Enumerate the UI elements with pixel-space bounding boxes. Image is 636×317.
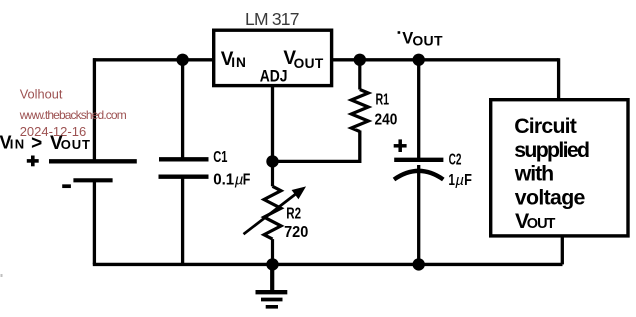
wire C2 branch down xyxy=(417,60,420,162)
load box text xyxy=(514,114,590,233)
speck artifact left margin xyxy=(1,274,3,277)
svg-text:voltage: voltage xyxy=(515,185,586,209)
svg-text:IN: IN xyxy=(231,55,246,70)
svg-text:µ: µ xyxy=(455,172,464,189)
wire battery - down to bottom rail xyxy=(93,180,96,264)
wire left vertical drop (top rail to battery +) xyxy=(93,58,96,161)
svg-text:www.thebackshed.com: www.thebackshed.com xyxy=(19,108,127,122)
svg-text:IN: IN xyxy=(10,136,25,151)
value 1uF xyxy=(448,172,472,189)
battery minus sign xyxy=(62,184,71,188)
svg-text:supplied: supplied xyxy=(514,138,590,162)
node junction C2 / bottom rail xyxy=(413,258,425,270)
wire ADJ junction to R1 bottom xyxy=(273,131,360,162)
wire LM317 output to right xyxy=(332,58,559,61)
label VIN > VOUT condition xyxy=(0,132,90,154)
capacitor C2 curved bottom plate xyxy=(394,171,443,180)
svg-text:>: > xyxy=(31,133,42,154)
node junction top rail / C1 xyxy=(176,54,188,66)
ground xyxy=(256,264,288,306)
svg-text:F: F xyxy=(464,172,472,189)
node junction output rail / R1 xyxy=(354,54,366,66)
arrow of R2 wiper xyxy=(244,187,305,234)
load box (circuit supplied with voltage VOUT) xyxy=(491,100,628,236)
svg-text:720: 720 xyxy=(284,224,308,241)
svg-text:1: 1 xyxy=(448,172,455,189)
pin label VIN xyxy=(221,49,246,70)
op-amp U1 LM317 regulator box xyxy=(214,30,332,85)
resistor R2 (variable) xyxy=(264,161,281,264)
svg-text:0.1: 0.1 xyxy=(213,172,234,189)
node junction R2 / bottom rail / ground xyxy=(266,258,278,270)
wire bottom ground rail xyxy=(93,263,563,266)
svg-text:OUT: OUT xyxy=(61,137,90,152)
svg-text:Circuit: Circuit xyxy=(514,114,577,138)
value 0.1uF xyxy=(213,172,250,189)
capacitor C1 top plate xyxy=(159,157,209,161)
svg-text:OUT: OUT xyxy=(412,32,443,48)
node junction output rail / C2 / VOUT xyxy=(413,54,425,66)
svg-text:240: 240 xyxy=(375,112,398,129)
battery plus sign xyxy=(27,156,39,167)
resistor R1 xyxy=(351,60,368,132)
wire C1 branch from top rail down xyxy=(181,60,184,160)
wire VOUT rail corner down to load box xyxy=(557,58,560,99)
svg-text:C1: C1 xyxy=(213,149,227,166)
pin label VOUT xyxy=(283,48,323,71)
capacitor C2 plus sign xyxy=(394,139,407,152)
svg-text:with: with xyxy=(514,161,554,185)
svg-text:OUT: OUT xyxy=(527,216,556,232)
wire C2 to bottom rail xyxy=(417,165,420,264)
svg-text:C2: C2 xyxy=(449,152,462,169)
wire load box bottom to rail xyxy=(561,236,564,264)
battery B1 negative plate (short) xyxy=(73,178,112,182)
capacitor C1 bottom plate xyxy=(159,175,209,179)
svg-text:Volhout: Volhout xyxy=(20,87,63,102)
svg-text:ADJ: ADJ xyxy=(260,68,288,86)
svg-text:OUT: OUT xyxy=(294,56,324,71)
capacitor C2 top plate xyxy=(394,158,443,162)
svg-text:R2: R2 xyxy=(286,205,301,222)
wire C1 to bottom rail xyxy=(181,177,184,264)
svg-text:F: F xyxy=(243,172,251,189)
wire top rail left (battery to LM317 VIN) xyxy=(93,58,214,61)
wire ADJ pin down xyxy=(271,86,274,162)
label VOUT top xyxy=(398,29,443,48)
svg-text:LM 317: LM 317 xyxy=(245,9,300,29)
svg-text:R1: R1 xyxy=(376,92,390,109)
node junction ADJ / R1 link / R2 xyxy=(266,155,278,167)
battery B1 positive plate (long) xyxy=(49,159,137,163)
